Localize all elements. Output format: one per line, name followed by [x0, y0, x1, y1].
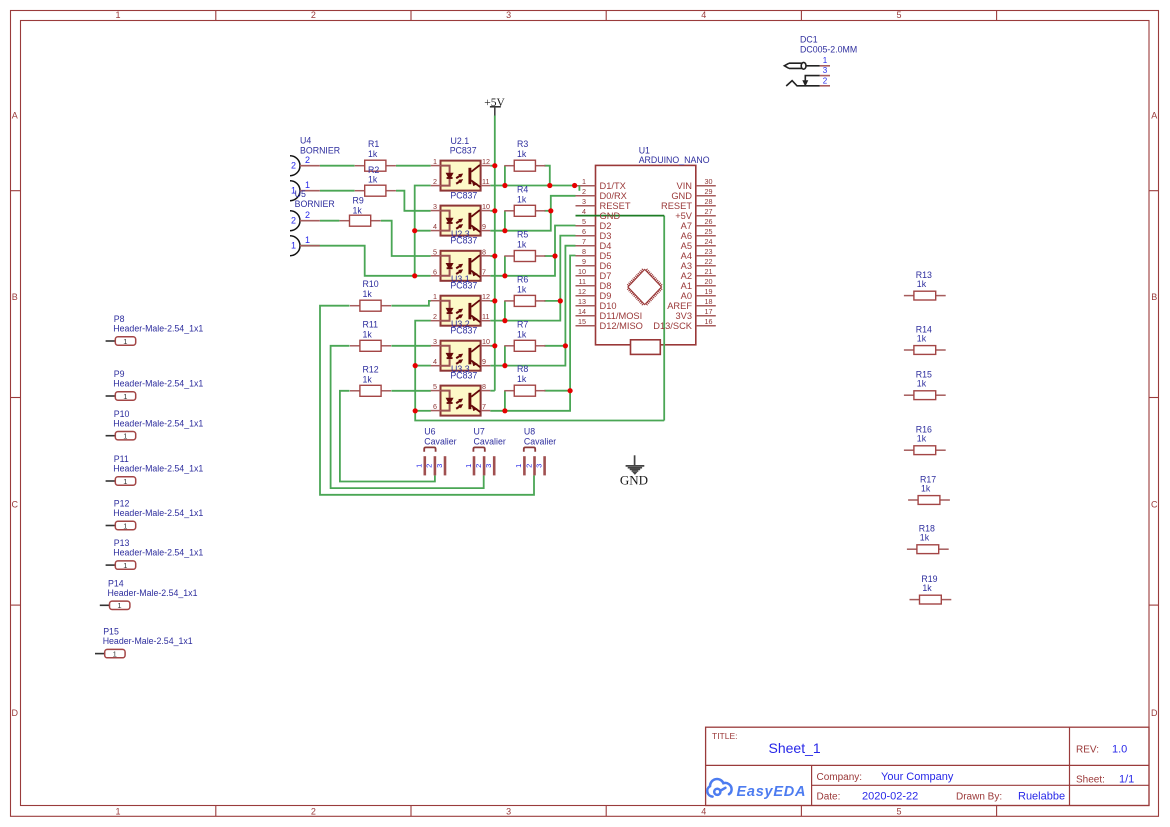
pin 14 D11/MOSI [578, 307, 642, 321]
wire U4.2 to R1 [320, 165, 355, 167]
svg-text:1: 1 [123, 521, 127, 530]
wire R3 left drop [504, 166, 506, 186]
svg-text:18: 18 [705, 297, 713, 306]
svg-text:U8: U8 [524, 427, 535, 437]
resistor R12 [350, 385, 391, 396]
wire bus A to pin4 [415, 230, 431, 232]
svg-text:R5: R5 [517, 230, 528, 240]
svg-text:1k: 1k [922, 583, 932, 593]
wire stage4 output to arduino pin6 [490, 236, 575, 321]
wire R8 left drop [504, 391, 506, 411]
resistor R11 [350, 340, 391, 351]
svg-text:D9: D9 [600, 291, 612, 301]
svg-text:1: 1 [123, 392, 127, 401]
svg-text:1: 1 [291, 241, 296, 251]
svg-text:4: 4 [433, 222, 437, 231]
svg-text:DC1: DC1 [800, 35, 818, 45]
svg-text:PC837: PC837 [450, 371, 477, 381]
pin 19 A0 [681, 287, 713, 301]
svg-text:5: 5 [433, 382, 437, 391]
svg-text:2: 2 [291, 216, 296, 226]
header P14 [100, 578, 198, 610]
svg-text:1: 1 [123, 561, 127, 570]
resistor R13 [904, 291, 946, 300]
svg-text:D1/TX: D1/TX [600, 181, 626, 191]
wire R3 right drop [544, 166, 550, 186]
pin 30 VIN [677, 177, 713, 191]
wire U5.1 to return bus [300, 246, 415, 276]
svg-text:A6: A6 [681, 231, 692, 241]
resistor R6 [504, 295, 545, 306]
wire U4.1 to R2 [320, 190, 355, 192]
opto-coupler U3.3 PC837 [431, 337, 491, 371]
junction dots bus A [412, 228, 417, 233]
wire R6 right tap [544, 300, 560, 302]
svg-text:25: 25 [705, 227, 713, 236]
svg-text:1k: 1k [917, 333, 927, 343]
wire GND riser to arduino pin4 [663, 216, 665, 421]
svg-text:2: 2 [305, 210, 310, 220]
wire rail to opto pin [490, 210, 495, 212]
svg-text:4: 4 [701, 807, 706, 817]
svg-text:12: 12 [482, 292, 490, 301]
svg-text:R9: R9 [353, 196, 364, 206]
svg-text:Cavalier: Cavalier [424, 436, 456, 446]
wire rail to opto pin [490, 255, 495, 257]
svg-text:BORNIER: BORNIER [295, 199, 335, 209]
svg-text:4: 4 [582, 207, 586, 216]
wire rail to pin 8 of U3 bottom [490, 390, 495, 392]
pin 29 GND [671, 187, 712, 201]
wire R10 to opto pin1 [391, 301, 431, 306]
resistor R4 [504, 205, 545, 216]
svg-text:2: 2 [305, 155, 310, 165]
svg-text:3: 3 [506, 10, 511, 20]
svg-text:28: 28 [705, 197, 713, 206]
svg-text:D13/SCK: D13/SCK [653, 321, 693, 331]
wire stage3 output to arduino pin5 [490, 226, 575, 276]
svg-text:Sheet_1: Sheet_1 [769, 740, 821, 756]
pin 1 D1/TX [582, 177, 626, 191]
svg-text:Header-Male-2.54_1x1: Header-Male-2.54_1x1 [113, 464, 203, 474]
svg-text:1: 1 [582, 177, 586, 186]
resistor R2 [355, 185, 396, 196]
svg-text:6: 6 [582, 227, 586, 236]
connector pin 2 [290, 155, 320, 176]
svg-text:2: 2 [524, 464, 533, 468]
svg-text:10: 10 [578, 267, 586, 276]
wire return bus A (pins 2,4,6 upper) [415, 186, 431, 276]
svg-text:1: 1 [464, 464, 473, 468]
svg-text:1k: 1k [917, 434, 927, 444]
svg-text:D11/MOSI: D11/MOSI [600, 311, 643, 321]
pin 22 A3 [681, 257, 713, 271]
pin 3 RESET [582, 197, 631, 211]
svg-text:GND: GND [620, 473, 648, 488]
svg-text:R7: R7 [517, 319, 528, 329]
wire stub below pin1 [578, 186, 580, 191]
svg-text:Header-Male-2.54_1x1: Header-Male-2.54_1x1 [108, 588, 198, 598]
svg-text:2: 2 [474, 464, 483, 468]
svg-text:30: 30 [705, 177, 713, 186]
pin 5 D2 [582, 217, 611, 231]
svg-text:26: 26 [705, 217, 713, 226]
svg-text:1k: 1k [368, 174, 378, 184]
pin 11 D8 [579, 277, 612, 291]
svg-text:2: 2 [582, 187, 586, 196]
svg-text:PC837: PC837 [450, 146, 477, 156]
svg-text:14: 14 [578, 307, 586, 316]
svg-text:D6: D6 [600, 261, 612, 271]
opto-coupler U3.4 PC837 [431, 382, 491, 416]
wire stage6 output to arduino pin8 [490, 256, 575, 411]
svg-text:5: 5 [433, 247, 437, 256]
wire R9 to opto pin5 [381, 221, 431, 256]
svg-text:1k: 1k [517, 374, 527, 384]
svg-text:1k: 1k [920, 533, 930, 543]
svg-text:3: 3 [823, 66, 828, 75]
svg-text:1k: 1k [363, 289, 373, 299]
svg-text:24: 24 [705, 237, 713, 246]
svg-text:1k: 1k [517, 194, 527, 204]
pin 6 D3 [582, 227, 611, 241]
svg-text:1k: 1k [517, 240, 527, 250]
EasyEDA logo [707, 779, 731, 797]
chip icon [627, 269, 662, 305]
svg-text:2: 2 [823, 76, 828, 85]
svg-text:BORNIER: BORNIER [300, 146, 340, 156]
svg-text:1k: 1k [363, 329, 373, 339]
wire arduino pin4 GND [576, 215, 665, 217]
svg-text:GND: GND [671, 191, 692, 201]
svg-text:D4: D4 [600, 241, 612, 251]
svg-text:3V3: 3V3 [675, 311, 692, 321]
svg-text:D3: D3 [600, 231, 612, 241]
header P11 [106, 454, 204, 486]
svg-text:Date:: Date: [817, 792, 841, 803]
pin 23 A4 [681, 247, 713, 261]
pin 8 D5 [582, 247, 611, 261]
svg-text:3: 3 [506, 807, 511, 817]
pin 24 A5 [681, 237, 713, 251]
svg-text:27: 27 [705, 207, 713, 216]
svg-text:Header-Male-2.54_1x1: Header-Male-2.54_1x1 [113, 324, 203, 334]
svg-text:R4: R4 [517, 184, 528, 194]
svg-text:9: 9 [482, 222, 486, 231]
svg-text:1.0: 1.0 [1112, 744, 1127, 756]
header P12 [106, 499, 204, 531]
pin 20 A1 [681, 277, 713, 291]
connector pin 2 [290, 210, 320, 231]
svg-text:12: 12 [578, 287, 586, 296]
connector DC1 symbol [784, 62, 819, 86]
svg-text:Header-Male-2.54_1x1: Header-Male-2.54_1x1 [103, 636, 193, 646]
header P8 [106, 314, 204, 346]
svg-text:10: 10 [482, 202, 490, 211]
svg-text:13: 13 [578, 297, 586, 306]
pin 17 3V3 [675, 307, 712, 321]
svg-text:AREF: AREF [667, 301, 692, 311]
svg-text:EasyEDA: EasyEDA [737, 784, 806, 800]
svg-text:2: 2 [311, 10, 316, 20]
svg-text:1: 1 [123, 337, 127, 346]
svg-text:D2: D2 [600, 221, 612, 231]
pin 21 A2 [681, 267, 713, 281]
svg-text:Sheet:: Sheet: [1076, 775, 1105, 786]
svg-text:A7: A7 [681, 221, 692, 231]
svg-text:3: 3 [433, 202, 437, 211]
svg-text:29: 29 [705, 187, 713, 196]
+5V power symbol [484, 97, 505, 116]
svg-text:1: 1 [415, 464, 424, 468]
svg-text:A4: A4 [681, 251, 692, 261]
pin 9 D6 [582, 257, 611, 271]
svg-text:1: 1 [123, 477, 127, 486]
pin 18 AREF [667, 297, 712, 311]
wire bus B to pin4 [415, 365, 431, 367]
wire rail to opto pin [490, 300, 495, 302]
svg-text:4: 4 [433, 357, 437, 366]
header P10 [106, 409, 204, 441]
svg-text:9: 9 [582, 257, 586, 266]
svg-text:9: 9 [482, 357, 486, 366]
svg-text:7: 7 [482, 402, 486, 411]
svg-text:1/1: 1/1 [1119, 774, 1134, 786]
wire rail to opto pin [490, 165, 495, 167]
svg-text:A1: A1 [681, 281, 692, 291]
pin 16 D13/SCK [653, 317, 712, 331]
svg-text:1: 1 [433, 292, 437, 301]
svg-text:Header-Male-2.54_1x1: Header-Male-2.54_1x1 [113, 548, 203, 558]
title block [706, 727, 1149, 805]
resistor R19 [910, 595, 952, 604]
svg-text:U1: U1 [639, 145, 650, 155]
pin 15 D12/MISO [578, 317, 643, 331]
svg-text:2: 2 [291, 161, 296, 171]
svg-text:REV:: REV: [1076, 745, 1099, 756]
svg-text:A3: A3 [681, 261, 692, 271]
svg-text:7: 7 [582, 237, 586, 246]
header P9 [106, 369, 204, 401]
resistor R3 [504, 160, 545, 171]
pin 12 D9 [578, 287, 611, 301]
svg-text:D8: D8 [600, 281, 612, 291]
wire R1 to opto pin1 [396, 165, 431, 167]
connector pin 1 [290, 235, 320, 256]
wire stage2 output to arduino pin2 [490, 196, 575, 231]
wire R5 left drop [504, 256, 506, 276]
resistor R7 [504, 340, 545, 351]
svg-text:4: 4 [701, 10, 706, 20]
svg-text:Cavalier: Cavalier [474, 436, 506, 446]
svg-text:U2.1: U2.1 [451, 136, 470, 146]
svg-text:C: C [12, 500, 19, 510]
svg-text:1: 1 [823, 56, 828, 65]
svg-text:A5: A5 [681, 241, 692, 251]
svg-text:15: 15 [578, 317, 586, 326]
wire return bus B (pins 2,4,6 lower) to GND line [415, 321, 664, 421]
svg-text:1: 1 [113, 649, 117, 658]
resistor R10 [350, 300, 391, 311]
svg-text:B: B [12, 292, 18, 302]
svg-text:2: 2 [433, 312, 437, 321]
svg-text:RESET: RESET [661, 201, 692, 211]
svg-text:1: 1 [117, 601, 121, 610]
svg-text:1k: 1k [517, 329, 527, 339]
svg-text:C: C [1151, 500, 1158, 510]
svg-text:P14: P14 [108, 578, 124, 588]
pin 2 D0/RX [582, 187, 627, 201]
svg-text:1k: 1k [368, 149, 378, 159]
svg-text:TITLE:: TITLE: [712, 731, 738, 741]
resistor R18 [907, 545, 949, 554]
wire R2 to opto pin3 [396, 191, 431, 211]
resistor R8 [504, 385, 545, 396]
svg-text:Ruelabbe: Ruelabbe [1018, 791, 1065, 803]
svg-text:PC837: PC837 [450, 281, 477, 291]
svg-text:R10: R10 [363, 279, 379, 289]
svg-text:R6: R6 [517, 274, 528, 284]
opto-coupler U3.1 PC837 [431, 247, 491, 280]
svg-text:3: 3 [433, 337, 437, 346]
wire stage5 output to arduino pin7 [490, 246, 575, 366]
svg-text:2020-02-22: 2020-02-22 [862, 791, 918, 803]
svg-text:A: A [1151, 111, 1157, 121]
pin 4 GND [582, 207, 620, 221]
header P15 [95, 627, 193, 659]
svg-text:RESET: RESET [600, 201, 631, 211]
svg-text:1: 1 [123, 432, 127, 441]
svg-text:1k: 1k [917, 379, 927, 389]
jumper U6 Cavalier [415, 427, 457, 476]
svg-text:ARDUINO_NANO: ARDUINO_NANO [639, 155, 710, 165]
svg-text:1: 1 [115, 10, 120, 20]
svg-text:D: D [12, 708, 19, 718]
pin 13 D10 [578, 297, 617, 311]
svg-text:3: 3 [534, 464, 543, 468]
svg-text:17: 17 [705, 307, 713, 316]
svg-text:Header-Male-2.54_1x1: Header-Male-2.54_1x1 [113, 418, 203, 428]
svg-text:D: D [1151, 708, 1158, 718]
ic U1 ARDUINO_NANO body [576, 165, 716, 354]
svg-text:7: 7 [482, 267, 486, 276]
wire U5.2 to R9 [320, 220, 340, 222]
svg-text:1k: 1k [517, 149, 527, 159]
svg-text:5: 5 [896, 10, 901, 20]
wire rail to opto pin [490, 345, 495, 347]
svg-text:P9: P9 [114, 369, 125, 379]
svg-text:10: 10 [482, 337, 490, 346]
svg-text:20: 20 [705, 277, 713, 286]
wire R4 left drop [504, 211, 506, 231]
svg-text:A: A [12, 111, 18, 121]
svg-text:11: 11 [482, 177, 489, 186]
svg-text:5: 5 [896, 807, 901, 817]
svg-text:8: 8 [582, 247, 586, 256]
opto-coupler U2.1 PC837 [431, 157, 491, 191]
wire R5 right tap [544, 255, 555, 257]
svg-text:D10: D10 [600, 301, 617, 311]
wire R4 right tap [544, 210, 551, 212]
svg-text:1: 1 [305, 235, 310, 245]
svg-text:3: 3 [582, 197, 586, 206]
svg-text:Cavalier: Cavalier [524, 436, 556, 446]
wire R11 loop to U7 pin2 [331, 346, 484, 488]
svg-text:GND: GND [600, 211, 621, 221]
svg-text:R3: R3 [517, 139, 528, 149]
resistor R14 [904, 346, 946, 355]
opto-coupler U3.2 PC837 [431, 292, 491, 326]
svg-text:P13: P13 [114, 538, 130, 548]
svg-text:PC837: PC837 [450, 191, 477, 201]
resistor R16 [904, 446, 946, 455]
svg-text:Your Company: Your Company [881, 771, 954, 783]
svg-text:8: 8 [482, 247, 486, 256]
pin 25 A6 [681, 227, 713, 241]
svg-text:Header-Male-2.54_1x1: Header-Male-2.54_1x1 [113, 379, 203, 389]
jumper U7 Cavalier [464, 427, 506, 476]
DC1 pin stubs [820, 65, 830, 67]
svg-text:11: 11 [579, 277, 586, 286]
pin 10 D7 [578, 267, 611, 281]
svg-text:A2: A2 [681, 271, 692, 281]
wire R11 to opto pin3 [391, 345, 431, 347]
wire R7 right tap [544, 345, 565, 347]
svg-text:DC005-2.0MM: DC005-2.0MM [800, 45, 857, 55]
svg-text:1k: 1k [921, 483, 931, 493]
svg-text:U7: U7 [474, 427, 485, 437]
svg-text:D12/MISO: D12/MISO [600, 321, 643, 331]
svg-text:A0: A0 [681, 291, 692, 301]
svg-text:6: 6 [433, 267, 437, 276]
svg-text:8: 8 [482, 382, 486, 391]
svg-text:19: 19 [705, 287, 713, 296]
wire R10 loop to U8 pin2 [320, 306, 534, 495]
wire bus B to pin6 [415, 410, 431, 412]
junction dots bus B [413, 363, 418, 368]
svg-text:D7: D7 [600, 271, 612, 281]
svg-text:1: 1 [514, 464, 523, 468]
resistor R5 [504, 251, 545, 262]
svg-text:3: 3 [484, 464, 493, 468]
wire R12 loop to U6 pin2 [340, 391, 435, 482]
svg-text:11: 11 [482, 312, 489, 321]
svg-text:1: 1 [115, 807, 120, 817]
pin 27 +5V [675, 207, 712, 221]
svg-text:22: 22 [705, 257, 713, 266]
svg-text:P8: P8 [114, 314, 125, 324]
pin 28 RESET [661, 197, 713, 211]
junction dots on +5V rail [492, 163, 497, 168]
wire bus A to pin6 [415, 275, 431, 277]
junction dots stage outputs [502, 183, 507, 188]
svg-text:5: 5 [582, 217, 586, 226]
svg-text:1k: 1k [517, 284, 527, 294]
svg-text:3: 3 [435, 464, 444, 468]
svg-text:+5V: +5V [675, 211, 693, 221]
svg-text:1k: 1k [917, 279, 927, 289]
svg-text:U4: U4 [300, 136, 311, 146]
svg-text:PC837: PC837 [450, 326, 477, 336]
pin 26 A7 [681, 217, 713, 231]
svg-text:D5: D5 [600, 251, 612, 261]
svg-text:16: 16 [705, 317, 713, 326]
wire R7 left drop [504, 346, 506, 366]
svg-text:2: 2 [311, 807, 316, 817]
jumper U8 Cavalier [514, 427, 556, 476]
svg-text:VIN: VIN [677, 181, 693, 191]
ground GND [620, 455, 648, 487]
